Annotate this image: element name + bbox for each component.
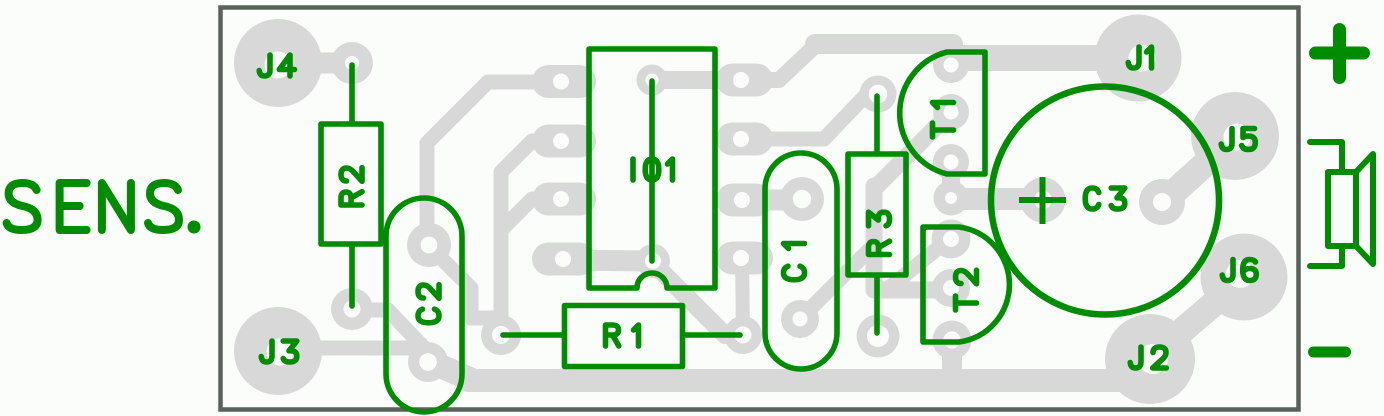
pad IO1 p2R oblong [716, 123, 773, 156]
pad T2.3 [933, 321, 972, 360]
wire T1.bot to X pad [942, 162, 960, 198]
wire pad2L to R1.left vertical [501, 141, 560, 335]
label SENS. [7, 183, 179, 230]
pad IO1 p2L oblong [532, 125, 596, 158]
pad C1.1 [780, 177, 824, 221]
wire J3 trace [278, 348, 428, 360]
wire T2.top to mid junction [890, 240, 948, 287]
op-amp IO1 outline with pin1 notch [589, 49, 715, 288]
wire C2.top to R1.left [429, 246, 501, 330]
pad jumper top [637, 65, 668, 96]
pad IO1 p4L oblong [532, 243, 596, 276]
pad J5 [1191, 92, 1279, 180]
pad C3.minus [1139, 179, 1185, 225]
pad R2.1 [331, 42, 373, 84]
transistor T2 outline [923, 227, 1009, 342]
wire ground bus [468, 369, 1148, 392]
capacitor C3 outline [991, 87, 1219, 315]
wire branch to C1.bot [801, 244, 875, 318]
pad C3.plus [1021, 178, 1066, 223]
pad J6 [1201, 234, 1288, 321]
pad IO1 p4R oblong [716, 242, 773, 275]
pad IO1 p1L oblong [532, 65, 596, 98]
pad X (T1.bot junction) [934, 181, 969, 216]
jumper wire inside IO1 [649, 81, 655, 261]
wire pad1L to C2.top [427, 82, 560, 247]
capacitor C2 outline [386, 198, 462, 412]
label J5 [1221, 129, 1232, 150]
resistor R1 [565, 306, 683, 367]
wire pad2R to R3.top [742, 95, 877, 139]
pad R2.2 [331, 288, 373, 330]
wire pad1R to T1.top [742, 44, 817, 80]
minus terminal symbol [1314, 347, 1346, 358]
resistor R2 [321, 124, 381, 244]
pad J4 [234, 19, 322, 107]
wire C2.bot to bus [429, 361, 472, 380]
speaker symbol [1310, 142, 1373, 266]
label J2 [1130, 347, 1141, 368]
wire pad3R to C1.top neck [744, 190, 801, 211]
wire jumper.bot to R1.right diagonal [651, 261, 740, 335]
pad T1.1 [933, 47, 969, 83]
pad J3 [234, 307, 322, 395]
label J4 [259, 55, 270, 76]
wire J1 to T1.top wide trace [955, 45, 1136, 71]
wire X pad to C3.left [951, 188, 1042, 210]
label J6 [1222, 260, 1233, 281]
label T2 (rotated) [956, 296, 977, 310]
pad R3.1 [860, 76, 897, 113]
label R2 (rotated) [341, 192, 362, 205]
pad jumper bottom [636, 244, 670, 278]
label R1 [606, 325, 619, 346]
label IO1 [630, 159, 636, 180]
label R3 (rotated) [869, 241, 890, 254]
label C1 (rotated) [784, 266, 805, 280]
wire jumper top pad to pad1R [652, 71, 741, 89]
pad C2.1 [407, 223, 451, 267]
drill holes [265, 45, 1255, 375]
pad IO1 p3L oblong [532, 183, 596, 216]
capacitor C1 outline [765, 153, 837, 369]
label C3 [1085, 188, 1099, 209]
pad R1.1 [481, 315, 521, 355]
pad R3.2 [857, 315, 900, 358]
transistor T1 outline [900, 52, 985, 174]
wire R2.bot to C2.bot [352, 310, 428, 352]
board edge symbols [1310, 30, 1373, 353]
pad IO1 p1R oblong [716, 64, 773, 97]
wire T1.mid route down behind R3 [874, 112, 951, 290]
wire J5 to C3.right neck [1163, 136, 1236, 202]
pad IO1 p3R oblong [716, 184, 773, 217]
label J1 [1128, 47, 1139, 68]
pad T1.3 [933, 144, 969, 180]
pad T2.2 [932, 269, 970, 307]
wire T2.bot to bus [942, 340, 962, 374]
wire J6 to J2 neck [1150, 278, 1244, 358]
wire pad3L to vertical [501, 199, 560, 230]
pad J2 [1105, 314, 1195, 404]
resistor R3 [848, 154, 906, 275]
pad T2.1 [932, 220, 971, 259]
wire pad4R to R1.right [742, 258, 743, 335]
pad C1.2 [781, 300, 819, 338]
wire pad4L to jumper bottom pad [564, 260, 650, 261]
board outline border [221, 8, 1299, 410]
C3 plus mark [1019, 177, 1066, 224]
pad C2.2 [408, 342, 448, 382]
pad T1.2 [933, 94, 969, 130]
plus terminal symbol [1316, 30, 1364, 78]
label J3 [261, 341, 272, 362]
label C2 (rotated) [418, 309, 439, 323]
wire J4 to R2.top neck [278, 53, 352, 74]
pad J1 [1095, 15, 1182, 102]
pad R1.2 [724, 316, 762, 354]
label T1 (rotated) [933, 123, 954, 137]
